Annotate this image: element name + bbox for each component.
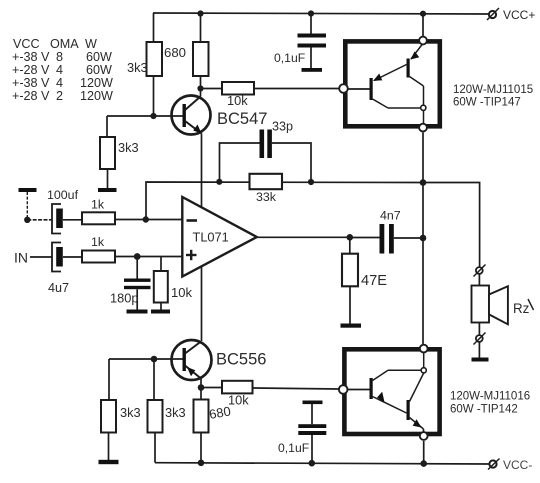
- op-amp U1 TL071: [182, 197, 256, 277]
- junction top rail / darlington: [420, 11, 426, 17]
- speaker Rz: [472, 286, 490, 323]
- terminal VCC-: [489, 460, 496, 467]
- transistor internals top box: [370, 78, 373, 100]
- transistor Q1 BC547: [172, 96, 211, 135]
- capacitor 33p: [220, 143, 261, 182]
- svg-text:4: 4: [56, 76, 63, 90]
- svg-text:120W-MJ11015: 120W-MJ11015: [453, 84, 533, 96]
- junction 4n7 node: [420, 235, 427, 242]
- svg-text:3k3: 3k3: [127, 60, 148, 75]
- transistor internals bottom box: [370, 378, 373, 399]
- svg-text:4u7: 4u7: [48, 281, 69, 295]
- resistor 10k (to lower darlington base): [201, 387, 222, 389]
- svg-text:TL071: TL071: [193, 230, 229, 245]
- terminal VCC+: [489, 11, 496, 18]
- terminal circle bottom box base: [339, 385, 348, 394]
- junction BC556 base / 3k3: [151, 356, 158, 363]
- capacitor 4u7: [52, 243, 61, 272]
- svg-text:4n7: 4n7: [380, 209, 401, 223]
- svg-text:10k: 10k: [171, 285, 192, 300]
- svg-text:VCC-: VCC-: [503, 458, 532, 472]
- svg-text:120W: 120W: [80, 76, 113, 90]
- input ground (signal reference): [19, 188, 37, 192]
- svg-text:120W: 120W: [80, 89, 113, 103]
- wire left terminal to Q base: [347, 88, 371, 90]
- ground (under 10k): [151, 310, 170, 314]
- resistor 3k3 (BC556 base): [153, 359, 155, 400]
- ground (under speaker): [472, 358, 489, 362]
- resistor 1k (feedback leg): [82, 212, 115, 224]
- svg-text:10k: 10k: [228, 393, 249, 408]
- svg-text:1k: 1k: [91, 235, 105, 249]
- svg-text:3k3: 3k3: [165, 405, 186, 420]
- terminal circle top box emitter: [419, 37, 427, 45]
- connector (speaker bottom): [478, 323, 480, 336]
- resistor 47E: [349, 237, 351, 253]
- ground (under lower-left 3k3): [99, 460, 119, 464]
- wire bottom box emitter to rail: [423, 441, 425, 464]
- svg-text:47E: 47E: [361, 273, 387, 289]
- svg-text:BC547: BC547: [217, 110, 267, 128]
- svg-text:10k: 10k: [227, 93, 248, 108]
- svg-text:0,1uF: 0,1uF: [274, 51, 305, 65]
- svg-text:+-28 V: +-28 V: [12, 63, 50, 77]
- svg-text:680: 680: [164, 45, 186, 60]
- resistor 680: [200, 13, 202, 42]
- resistor 3k3 (lower far left): [108, 359, 110, 400]
- svg-text:+-38 V: +-38 V: [12, 50, 50, 64]
- darlington box U3 (bottom, NPN): [344, 349, 439, 434]
- svg-text:VCC: VCC: [13, 37, 40, 51]
- resistor 33k (feedback): [250, 174, 283, 189]
- ground (under 180p): [127, 310, 148, 314]
- terminal circle bottom box emitter: [420, 432, 428, 440]
- capacitor 180p: [136, 257, 138, 279]
- wire darlington collector down: [422, 133, 424, 183]
- svg-text:+-28 V: +-28 V: [12, 89, 50, 103]
- svg-text:4: 4: [56, 63, 63, 77]
- wire output to speaker: [423, 183, 480, 268]
- svg-text:60W -TIP142: 60W -TIP142: [450, 404, 518, 416]
- svg-text:W: W: [85, 37, 97, 51]
- svg-text:3k3: 3k3: [118, 140, 139, 155]
- junction output node / speaker branch: [420, 179, 427, 186]
- svg-text:IN: IN: [14, 250, 28, 266]
- feedback wire: [146, 182, 423, 220]
- junction BC547 base / 3k3: [150, 113, 156, 119]
- junction top rail / 0.1uF: [308, 10, 314, 16]
- capacitor 4n7: [350, 237, 380, 239]
- op-amp output wire: [257, 236, 350, 238]
- junction rail / 680: [198, 460, 205, 467]
- svg-text:0,1uF: 0,1uF: [278, 441, 309, 455]
- wire top rail VCC+: [153, 13, 489, 14]
- svg-text:BC556: BC556: [216, 351, 266, 369]
- resistor 10k (to upper darlington base): [201, 88, 223, 90]
- junction output / 47E: [347, 234, 354, 241]
- junction BC547 collector / 680 / 10k: [197, 85, 203, 91]
- capacitor 0,1uF (top): [310, 13, 312, 34]
- resistor 10k (non-inverting to ground): [160, 257, 162, 272]
- svg-text:60W: 60W: [86, 50, 112, 64]
- junction input ground node: [24, 217, 30, 223]
- svg-text:8: 8: [56, 50, 63, 64]
- wire left terminal to base: [347, 389, 371, 391]
- junction BC556 emitter / 680 / 10k: [198, 384, 205, 391]
- resistor 3k3 (BC547 base to ground): [106, 116, 108, 137]
- junction feedback 33p right: [308, 179, 314, 185]
- terminal circle bottom box collector: [420, 345, 428, 353]
- svg-text:120W-MJ11016: 120W-MJ11016: [450, 391, 530, 403]
- junction feedback 33p left: [216, 179, 222, 185]
- transistor Q3 BC556: [201, 266, 203, 342]
- wire bottom rail VCC-: [155, 463, 489, 464]
- svg-text:33p: 33p: [272, 120, 293, 134]
- junction rail / darlington emitter: [420, 460, 427, 467]
- svg-text:+-38 V: +-38 V: [12, 76, 50, 90]
- darlington box U2 (top, PNP): [345, 41, 440, 126]
- table supply options: [12, 37, 113, 103]
- ground (under 47E): [341, 324, 362, 328]
- svg-text:VCC+: VCC+: [503, 8, 535, 22]
- svg-text:3k3: 3k3: [120, 405, 141, 420]
- svg-text:2: 2: [56, 89, 63, 103]
- svg-text:60W -TIP147: 60W -TIP147: [453, 97, 521, 109]
- resistor 680 (BC556 emitter): [200, 388, 202, 400]
- svg-text:1k: 1k: [91, 198, 105, 212]
- capacitor 0,1uF (bottom): [303, 401, 323, 405]
- junction top rail / 680: [197, 10, 203, 16]
- svg-text:180p: 180p: [110, 291, 138, 306]
- terminal circle top box base: [339, 84, 348, 93]
- svg-text:OMA: OMA: [50, 37, 79, 51]
- junction inverting input / feedback: [143, 216, 149, 222]
- junction rail / 0.1uF bottom: [309, 460, 316, 467]
- ground (under 3k3): [98, 188, 117, 192]
- svg-text:60W: 60W: [86, 63, 112, 77]
- connector (speaker top): [476, 267, 483, 274]
- junction non-inverting input node: [134, 253, 141, 260]
- resistor 1k (input): [82, 251, 115, 263]
- resistor 3k3 (top left, collector load of BC547 base divider): [153, 13, 155, 42]
- svg-text:33k: 33k: [256, 190, 277, 204]
- terminal circle top box collector: [419, 124, 427, 132]
- svg-text:100uf: 100uf: [47, 188, 79, 202]
- svg-text:Rz: Rz: [513, 301, 530, 316]
